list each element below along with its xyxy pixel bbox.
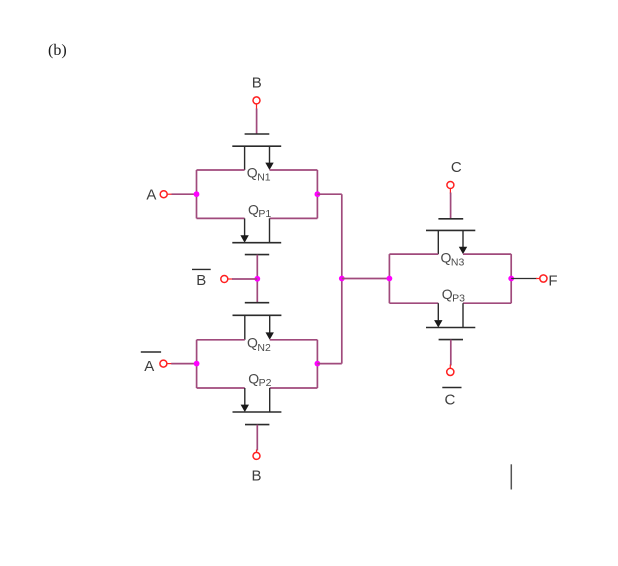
wire: TG2 loop right vertical: [316, 340, 318, 388]
wire: output bus vertical: [341, 194, 343, 363]
wire: TG2 loop bottom left: [197, 387, 245, 389]
node: TG1 input junction: [194, 191, 200, 197]
svg-text:P1: P1: [258, 208, 271, 220]
label A-bar (terminal name): [141, 352, 161, 375]
svg-text:C: C: [444, 391, 455, 408]
node: TG2 input junction: [194, 361, 200, 367]
terminal C (open circle): [447, 182, 454, 194]
transistor QP3: [426, 286, 475, 340]
wire: QP3 gate to C-bar terminal: [450, 340, 452, 366]
wire: TG1 loop top left: [197, 169, 245, 171]
wire: TG1 loop top right: [270, 169, 318, 171]
wire: TG3 loop bottom right: [463, 302, 511, 304]
wire: TG2 loop top right: [270, 339, 318, 341]
svg-text:P3: P3: [452, 292, 465, 304]
terminal F (open circle): [536, 275, 547, 282]
node: TG3 output junction: [508, 276, 514, 282]
wire: TG1 loop bottom right: [270, 217, 318, 219]
svg-text:Q: Q: [441, 249, 452, 265]
svg-text:N1: N1: [257, 172, 271, 184]
terminal B-bar (open circle): [221, 276, 233, 283]
wire: QP2 gate to B terminal (bottom): [256, 425, 258, 451]
svg-text:A: A: [146, 187, 156, 204]
svg-text:B: B: [196, 272, 206, 289]
transistor QN2: [233, 303, 282, 354]
svg-text:(b): (b): [48, 42, 67, 59]
svg-text:Q: Q: [247, 335, 258, 351]
terminal B (top, open circle): [253, 97, 260, 110]
svg-text:Q: Q: [248, 201, 259, 217]
terminal C-bar (open circle): [447, 365, 454, 376]
wire: TG2 loop bottom right: [270, 387, 318, 389]
transistor QN3: [426, 219, 475, 269]
wire: TG2 loop left vertical: [196, 340, 198, 388]
node: TG1 output junction: [315, 191, 321, 197]
terminal B (bottom, open circle): [253, 450, 260, 460]
label B-bar (terminal name): [192, 269, 211, 289]
svg-text:Q: Q: [248, 371, 259, 387]
svg-text:A: A: [144, 358, 154, 375]
wire: bus corner to TG2 output: [317, 363, 341, 365]
svg-text:N2: N2: [257, 342, 271, 354]
wire: TG1 loop bottom left: [197, 217, 245, 219]
node: bus junction: [339, 276, 345, 282]
wire: TG3 loop right vertical: [510, 254, 512, 303]
wire: B-bar terminal to junction: [232, 278, 257, 280]
wire: TG3 loop left vertical: [388, 254, 390, 303]
wire: TG1 output to bus corner: [317, 193, 341, 195]
transistor QN1: [232, 134, 281, 184]
label C-bar (terminal name): [442, 388, 461, 409]
node: TG3 input junction: [387, 276, 393, 282]
wire: QP1 gate to QN2 gate (B-bar net): [256, 255, 258, 303]
wire: TG3 loop bottom left: [389, 302, 438, 304]
wire: TG1 loop left vertical: [196, 170, 198, 218]
svg-text:B: B: [251, 468, 261, 485]
terminal A-bar (open circle): [160, 360, 172, 367]
svg-text:N3: N3: [451, 256, 465, 268]
node: B-bar junction: [254, 276, 260, 282]
svg-text:F: F: [548, 273, 557, 290]
wire: B terminal to QN1 gate: [256, 109, 258, 135]
cursor mark: [510, 464, 512, 489]
wire: TG1 loop right vertical: [316, 170, 318, 218]
svg-text:Q: Q: [247, 164, 258, 180]
svg-text:Q: Q: [442, 286, 453, 302]
wire: C terminal to QN3 gate: [450, 193, 452, 219]
terminal A (open circle): [160, 191, 172, 198]
wire: F output lead (black): [511, 278, 537, 280]
svg-text:C: C: [451, 159, 462, 176]
wire: bus junction to TG3 input: [342, 278, 390, 280]
wire: TG2 loop top left: [197, 339, 245, 341]
transistor QP1: [232, 201, 281, 254]
svg-text:P2: P2: [259, 377, 272, 389]
wire: A-bar terminal to TG2 input node: [171, 363, 196, 365]
transistor QP2: [233, 371, 282, 425]
wire: TG3 loop top right: [463, 253, 511, 255]
wire: TG3 loop top left: [389, 253, 438, 255]
wire: A terminal to TG1 input node: [172, 193, 197, 195]
node: TG2 output junction: [315, 361, 321, 367]
svg-text:B: B: [252, 75, 262, 92]
